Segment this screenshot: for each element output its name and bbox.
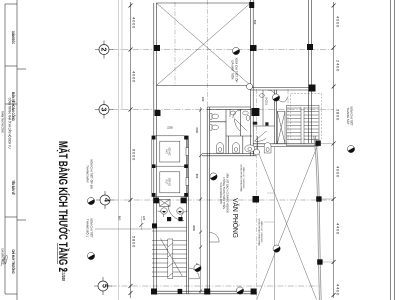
svg-text:MẶT BẰNG KÍCH THƯỚC TẦNG 2: MẶT BẰNG KÍCH THƯỚC TẦNG 2 — [56, 141, 71, 272]
svg-text:ĐÈN 12 LY (100X2000): ĐÈN 12 LY (100X2000) — [242, 168, 245, 189]
svg-text:5: 5 — [101, 284, 108, 288]
svg-text:TL:1/100: TL:1/100 — [61, 268, 67, 281]
svg-text:GIÁM ĐỐC: GIÁM ĐỐC — [11, 31, 17, 45]
svg-text:6000: 6000 — [131, 149, 136, 161]
svg-text:3800: 3800 — [192, 225, 196, 231]
svg-text:4000: 4000 — [131, 17, 136, 29]
svg-text:4000: 4000 — [131, 71, 136, 83]
svg-text:VỮA XI MĂNG M75: VỮA XI MĂNG M75 — [219, 182, 222, 204]
svg-text:THANG SẮT: THANG SẮT — [346, 107, 351, 124]
svg-text:5800: 5800 — [131, 236, 136, 248]
svg-text:TÊN BẢN VẼ: TÊN BẢN VẼ — [11, 180, 17, 194]
svg-text:200: 200 — [201, 97, 205, 102]
svg-text:4500: 4500 — [195, 127, 199, 133]
svg-text:P.KT: P.KT — [165, 149, 167, 154]
svg-text:THANG BỘ 1: THANG BỘ 1 — [86, 219, 91, 238]
svg-text:CHỐNG PHỒNG TREO TRẦN: CHỐNG PHỒNG TREO TRẦN — [240, 164, 243, 192]
svg-text:P.KT: P.KT — [165, 180, 167, 185]
svg-text:2: 2 — [99, 48, 106, 52]
svg-text:S=22.5: S=22.5 — [265, 97, 268, 105]
svg-text:3800: 3800 — [335, 109, 340, 121]
svg-text:630 KG: 630 KG — [168, 178, 170, 186]
svg-text:2400: 2400 — [335, 60, 340, 72]
svg-text:VĂN PHÒNG: VĂN PHÒNG — [231, 198, 240, 238]
svg-text:500: 500 — [253, 20, 257, 25]
svg-text:860: 860 — [118, 216, 122, 221]
svg-text:225: 225 — [142, 216, 146, 221]
svg-text:CÔNG TRÌNH: NHÀ Ở VÀ CĂN HỘ DỊ: CÔNG TRÌNH: NHÀ Ở VÀ CĂN HỘ DỊCH VỤ — [7, 98, 13, 149]
svg-text:4400: 4400 — [335, 223, 340, 235]
svg-text:CHỈ HUY TRƯỞNG: CHỈ HUY TRƯỞNG — [11, 249, 17, 274]
svg-text:CHỐNG PHỒNG TREO TRẦN: CHỐNG PHỒNG TREO TRẦN — [258, 218, 261, 246]
svg-text:4: 4 — [103, 198, 110, 202]
svg-text:ĐÈN 12 LY (100X2000): ĐÈN 12 LY (100X2000) — [260, 222, 263, 243]
svg-text:2250: 2250 — [167, 126, 173, 130]
svg-text:THANG MÁY: THANG MÁY — [86, 165, 90, 183]
svg-text:4000: 4000 — [335, 166, 340, 178]
svg-text:3: 3 — [99, 108, 106, 112]
svg-text:800: 800 — [195, 174, 199, 179]
svg-text:4400: 4400 — [335, 284, 340, 296]
svg-text:630 KG: 630 KG — [168, 148, 170, 156]
svg-text:4000: 4000 — [335, 16, 340, 28]
